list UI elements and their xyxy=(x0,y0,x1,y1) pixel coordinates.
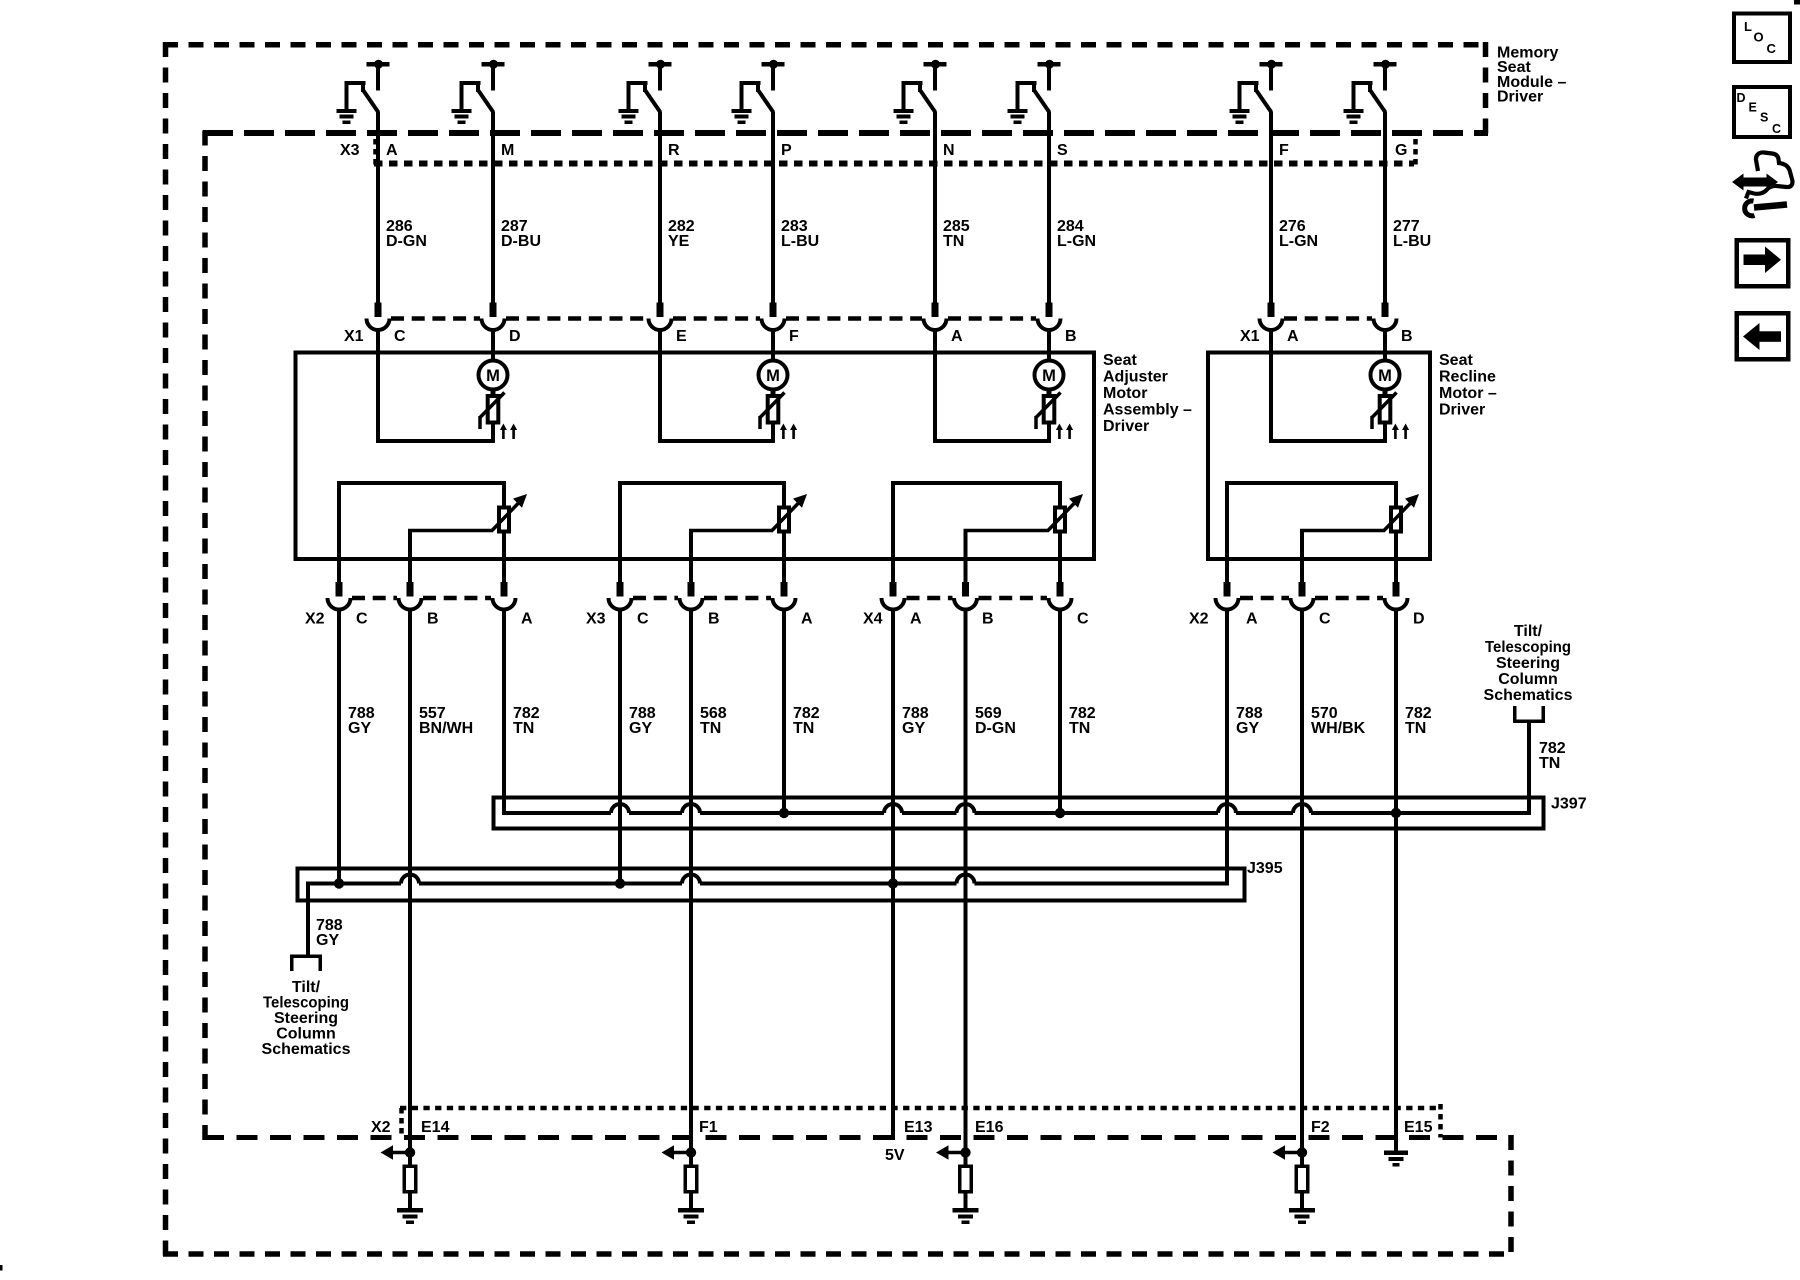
svg-text:A: A xyxy=(1287,328,1299,345)
svg-text:B: B xyxy=(1065,328,1077,345)
svg-text:Adjuster: Adjuster xyxy=(1103,368,1168,385)
svg-text:J395: J395 xyxy=(1247,860,1283,877)
svg-text:E13: E13 xyxy=(904,1119,933,1136)
svg-text:P: P xyxy=(781,142,792,159)
svg-text:Steering: Steering xyxy=(274,1010,338,1027)
svg-text:TN: TN xyxy=(943,233,964,250)
svg-text:A: A xyxy=(951,328,963,345)
svg-text:BN/WH: BN/WH xyxy=(419,720,473,737)
svg-text:O: O xyxy=(1754,30,1764,45)
svg-text:TN: TN xyxy=(513,720,534,737)
svg-text:L-GN: L-GN xyxy=(1279,233,1318,250)
svg-text:M: M xyxy=(766,367,780,385)
svg-text:Steering: Steering xyxy=(1496,655,1560,672)
svg-text:Tilt/: Tilt/ xyxy=(292,979,321,996)
svg-text:C: C xyxy=(1772,122,1781,136)
svg-text:Schematics: Schematics xyxy=(1484,687,1573,704)
svg-text:D-BU: D-BU xyxy=(501,233,541,250)
svg-text:Driver: Driver xyxy=(1103,418,1149,435)
svg-text:E15: E15 xyxy=(1404,1119,1433,1136)
svg-text:E: E xyxy=(676,328,687,345)
svg-text:TN: TN xyxy=(1539,755,1560,772)
svg-text:Recline: Recline xyxy=(1439,368,1496,385)
svg-text:D: D xyxy=(1737,91,1746,105)
svg-text:TN: TN xyxy=(793,720,814,737)
svg-text:F: F xyxy=(789,328,799,345)
svg-text:M: M xyxy=(1042,367,1056,385)
svg-text:GY: GY xyxy=(902,720,925,737)
svg-text:Driver: Driver xyxy=(1439,401,1485,418)
svg-text:X3: X3 xyxy=(340,142,360,159)
svg-text:Schematics: Schematics xyxy=(262,1041,351,1058)
svg-text:J397: J397 xyxy=(1551,796,1587,813)
svg-text:C: C xyxy=(1319,611,1331,628)
svg-text:5V: 5V xyxy=(885,1147,905,1164)
svg-text:A: A xyxy=(910,611,922,628)
svg-text:Motor –: Motor – xyxy=(1439,385,1497,402)
svg-text:G: G xyxy=(1395,142,1407,159)
svg-text:C: C xyxy=(637,611,649,628)
svg-text:B: B xyxy=(982,611,994,628)
svg-text:X2: X2 xyxy=(371,1119,391,1136)
svg-text:X1: X1 xyxy=(344,328,364,345)
svg-text:C: C xyxy=(1767,41,1777,56)
svg-text:D-GN: D-GN xyxy=(975,720,1016,737)
svg-text:A: A xyxy=(801,611,813,628)
svg-text:GY: GY xyxy=(316,932,339,949)
svg-text:F2: F2 xyxy=(1311,1119,1330,1136)
svg-text:L-BU: L-BU xyxy=(1393,233,1431,250)
svg-text:GY: GY xyxy=(348,720,371,737)
svg-text:L: L xyxy=(1744,19,1752,34)
svg-text:Column: Column xyxy=(276,1026,336,1043)
svg-text:C: C xyxy=(394,328,406,345)
svg-text:D: D xyxy=(509,328,521,345)
svg-text:Seat: Seat xyxy=(1103,352,1137,369)
svg-text:Seat: Seat xyxy=(1439,352,1473,369)
svg-text:A: A xyxy=(1246,611,1258,628)
svg-text:X2: X2 xyxy=(1189,611,1209,628)
svg-text:TN: TN xyxy=(700,720,721,737)
svg-text:A: A xyxy=(521,611,533,628)
svg-text:Driver: Driver xyxy=(1497,88,1543,105)
svg-text:F: F xyxy=(1279,142,1289,159)
svg-text:S: S xyxy=(1760,111,1768,125)
svg-text:Tilt/: Tilt/ xyxy=(1514,623,1543,640)
svg-text:GY: GY xyxy=(629,720,652,737)
svg-text:B: B xyxy=(708,611,720,628)
svg-text:C: C xyxy=(1077,611,1089,628)
svg-text:M: M xyxy=(486,367,500,385)
svg-text:Motor: Motor xyxy=(1103,385,1147,402)
svg-text:E: E xyxy=(1749,101,1757,115)
svg-text:S: S xyxy=(1057,142,1068,159)
svg-text:YE: YE xyxy=(668,233,690,250)
svg-text:X2: X2 xyxy=(305,611,325,628)
svg-text:L-BU: L-BU xyxy=(781,233,819,250)
svg-text:GY: GY xyxy=(1236,720,1259,737)
svg-text:X1: X1 xyxy=(1240,328,1260,345)
svg-text:F1: F1 xyxy=(699,1119,718,1136)
svg-text:Telescoping: Telescoping xyxy=(263,995,349,1012)
svg-text:TN: TN xyxy=(1405,720,1426,737)
svg-text:D: D xyxy=(1413,611,1425,628)
svg-text:WH/BK: WH/BK xyxy=(1311,720,1366,737)
svg-text:B: B xyxy=(1401,328,1413,345)
svg-text:Telescoping: Telescoping xyxy=(1485,639,1571,656)
svg-text:Assembly –: Assembly – xyxy=(1103,401,1192,418)
svg-text:L-GN: L-GN xyxy=(1057,233,1096,250)
svg-text:N: N xyxy=(943,142,955,159)
svg-text:D-GN: D-GN xyxy=(386,233,427,250)
svg-text:R: R xyxy=(668,142,680,159)
svg-text:C: C xyxy=(356,611,368,628)
svg-text:A: A xyxy=(386,142,398,159)
svg-text:B: B xyxy=(427,611,439,628)
svg-text:TN: TN xyxy=(1069,720,1090,737)
svg-text:X3: X3 xyxy=(586,611,606,628)
svg-text:E14: E14 xyxy=(421,1119,450,1136)
svg-text:M: M xyxy=(1378,367,1392,385)
svg-text:Column: Column xyxy=(1498,671,1558,688)
svg-text:M: M xyxy=(501,142,514,159)
svg-text:X4: X4 xyxy=(863,611,883,628)
svg-text:E16: E16 xyxy=(975,1119,1004,1136)
